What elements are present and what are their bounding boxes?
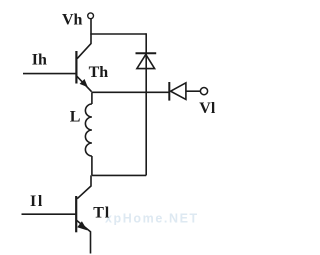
- svg-text:Vh: Vh: [62, 11, 83, 28]
- svg-text:Th: Th: [89, 64, 109, 81]
- svg-text:Il: Il: [30, 193, 44, 210]
- svg-text:xpHome.NET: xpHome.NET: [105, 212, 199, 226]
- svg-text:Ih: Ih: [32, 52, 47, 69]
- svg-text:Tl: Tl: [93, 205, 110, 222]
- svg-text:Vl: Vl: [199, 100, 216, 117]
- svg-text:L: L: [70, 108, 81, 125]
